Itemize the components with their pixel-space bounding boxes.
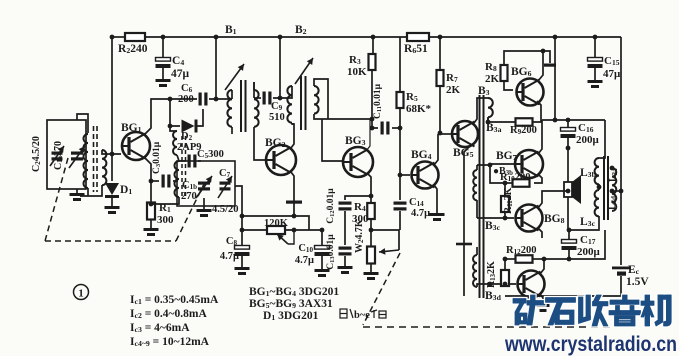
wire R10 left [490,165,513,183]
svg-text:C24.5/20: C24.5/20 [31,136,42,172]
wire R11 bottom [503,212,508,220]
wire BG6 collector [538,51,543,81]
resistor R2 [118,33,148,55]
node R7-BG5 [438,131,443,136]
wire battery bottom [505,276,621,296]
wire C13 to ground [344,256,346,266]
wire rail down to C16 [554,37,556,120]
transistor BG5 [451,121,478,159]
capacitor C14 [394,197,431,230]
svg-text:b~e: b~e [354,310,370,321]
wire BG5 collector to B3 [474,98,488,123]
wire BG5 emitter down [456,144,472,296]
svg-text:300: 300 [157,214,174,226]
wire C17 bottom [568,250,570,259]
oscillator tank box [177,161,235,206]
wire output top riser [599,120,605,158]
wire C16 top row [542,118,605,123]
IF transformer B1 primary [227,90,232,127]
output transformer secondary [612,168,616,211]
wire BG9 collector [540,259,544,274]
svg-text:10K: 10K [347,66,367,78]
wire B3 mid top to BG7 base [477,163,514,218]
svg-text:510: 510 [269,112,285,123]
resistor R5 [397,37,432,115]
wire bias row lower [242,229,322,231]
ground under R1 [144,228,159,236]
wire BG2 collector [291,124,294,148]
ground under D1 [105,206,120,214]
wire B2 primary bottom [292,123,294,124]
resistor R12 [506,245,536,263]
node BG1 emitter-C3 [149,179,154,184]
variable capacitor C1a [53,141,85,170]
text Ic3 line [130,322,190,334]
dashed AGC link [363,253,612,327]
wire osc coil feed [170,126,177,131]
node C9 right [278,96,283,101]
svg-text:200μ: 200μ [577,246,601,258]
resistor R4 [352,201,375,225]
wire C12 branch [345,196,371,200]
diode D1 [105,183,132,198]
ground under tuning gang [70,193,85,201]
wire BG3 emitter to R4 [370,196,372,203]
B3 winding bottom [473,255,477,287]
circled figure number 1 [74,285,89,300]
wire BG2 emitter to gnd [291,172,294,216]
B3 winding top [488,98,493,122]
svg-text:R112K: R112K [503,187,514,214]
svg-text:200μ: 200μ [576,134,600,146]
node rail-left [110,35,115,40]
resistor R1 [147,202,174,226]
capacitor C4 [156,37,190,80]
wire coil secondary top to BG1 base [102,150,121,154]
text Ic1 line [130,294,219,306]
speaker L3b [564,175,581,204]
svg-text:www.crystalradio.cn: www.crystalradio.cn [504,333,677,356]
wire bias row upper [242,216,309,230]
wire osc w1-w2 [177,155,179,161]
wire R5 bottom to column [399,108,401,198]
node bias right [320,228,325,233]
ground under C4 [156,79,171,87]
wire BG4 emitter [434,185,437,213]
potentiometer W2 [354,219,399,263]
node rail-C15 [593,35,598,40]
resistor R3 [347,37,376,78]
wire D1 to ground [111,197,113,206]
watermark hanzi kuang-shi-shou-yin-ji [513,295,671,326]
wire gang bottom to ground [76,189,78,193]
capacitor C9 [263,92,285,124]
wire BG8 emitter [534,228,542,241]
antenna coil secondary L1b [102,150,106,185]
wire R13 bottom [503,282,508,287]
potentiometer 120K [264,218,294,244]
text D1 type [263,310,319,322]
transistor BG3 [342,135,373,177]
wire BG4 collector [434,134,438,165]
ground BG4 emitter [430,213,445,221]
resistor R9 [510,118,537,136]
wire R8 top bend [504,51,543,65]
antenna coil primary L1a [84,134,89,188]
label B3c [485,220,501,232]
IF transformer B2 secondary [314,86,319,114]
node BG3 emitter [369,194,374,199]
svg-text:2K: 2K [485,73,500,85]
svg-text:68K*: 68K* [406,103,432,115]
label B3a [486,122,502,134]
capacitor C12 [326,188,352,224]
node rail-B2 [278,35,283,40]
wire C9 left [254,82,261,98]
transistor BG7 [496,150,543,178]
capacitor C16 [561,120,600,146]
resistor R8 [485,61,508,85]
B3 core [480,95,484,298]
svg-text:R12200: R12200 [506,245,536,256]
svg-text:R2240: R2240 [118,43,148,55]
capacitor C11 [372,83,400,134]
oscillator coil winding1 [173,131,177,155]
wire L3d bottom [567,216,599,232]
wire R12 right [533,258,542,260]
wire BG6 base [504,81,513,90]
output transformer winding L3a [595,158,599,184]
svg-text:C120.01μ: C120.01μ [326,188,336,224]
transistor BG9 [517,271,545,298]
node osc-emitter [149,202,154,207]
wire C12 to C13 [344,211,346,245]
wire B2 secondary to BG3 base [314,114,374,161]
wire R1 to ground [150,220,152,228]
ground under W2 [364,272,379,280]
svg-text:C1a270: C1a270 [53,141,64,170]
dashed oscillator outline [45,158,204,241]
node B1 feed [214,97,219,102]
wire R4 to W2 [369,219,399,250]
label B3b [493,166,513,177]
svg-text:4.7μ: 4.7μ [295,255,314,266]
capacitor C13 [326,234,352,270]
node R5-C11 [398,126,403,131]
svg-text:Ic2 = 0.4~0.8mA: Ic2 = 0.4~0.8mA [130,308,207,320]
wire BG4 base [400,174,410,176]
wire B1 secondary top [253,82,255,90]
wire B1 secondary to BG2 base [254,127,265,160]
B1 tuning arrow [225,64,244,90]
svg-text:C110.01μ: C110.01μ [373,83,383,119]
capacitor C10 [295,230,330,269]
watermark url [504,333,677,356]
ground under C15 [588,80,603,88]
variable capacitor C1b [181,176,212,202]
output transformer winding L3d [595,190,599,216]
wire right rail down to battery [620,37,622,265]
label B1 [225,24,237,36]
node rail-R7 [438,35,443,40]
wire B3 bottom to BG9 base [477,282,516,287]
label L3d [607,196,618,210]
svg-text:4.7μ: 4.7μ [220,251,239,262]
wire box right riser [235,186,242,230]
wire top supply rail [112,36,621,38]
capacitor C8 [220,230,250,267]
label L3c [580,216,596,228]
B2 core [301,76,306,130]
wire R7 down [439,86,441,133]
node osc top [168,124,173,129]
svg-text:C30.01μ: C30.01μ [152,141,162,174]
svg-text:270: 270 [181,191,197,202]
capacitor C17 [562,230,601,258]
osc coil core [182,136,186,196]
capacitor C5 [179,149,224,168]
wire C9 to B2 [273,86,292,98]
transistor BG2 [265,137,296,175]
wire BG1 emitter [145,158,151,203]
trimmer capacitor C2 [31,136,64,172]
IF transformer B2 primary [287,86,292,123]
node rail-B1 [214,35,219,40]
resistor R13 [486,257,509,288]
svg-text:C5300: C5300 [197,149,224,160]
wire C16 bottom [566,138,571,182]
svg-text:4.5/20: 4.5/20 [212,204,239,215]
wire coil primary bottom [87,188,89,196]
wire L3a-L3d gap [597,184,602,190]
node bias join [110,152,115,157]
trimmer capacitor C7 [218,168,232,198]
svg-text:C130.01μ: C130.01μ [326,234,336,270]
ground under C10 [315,269,330,277]
svg-text:1: 1 [78,288,84,300]
node rail-C4 [161,35,166,40]
svg-text:BG5~BG9 3AX31: BG5~BG9 3AX31 [249,298,333,310]
ground under C13 [338,266,353,274]
resistor R6 [404,33,429,55]
B2 tuning arrow [295,58,313,84]
node rail-R3 [371,35,376,40]
wire rail to C9 node [279,37,281,98]
svg-text:R9200: R9200 [510,125,537,136]
node R3-C11 [370,126,375,131]
text Ic4 line [130,336,210,348]
wire R9 left [488,121,516,123]
battery Ec [612,264,649,288]
ground BG2 emitter [286,201,302,204]
svg-text:200: 200 [178,94,194,105]
svg-text:4.7μ: 4.7μ [411,208,430,219]
node bias lower left [240,228,245,233]
svg-text:120K: 120K [264,218,289,229]
wire D2 cathode up [195,109,203,126]
oscillator coil winding2 [175,161,180,197]
wire rail to B1 node [215,37,217,99]
wire coil secondary bottom [80,185,102,196]
diode D2 [177,120,202,154]
wire bottom common row [542,230,605,261]
wire speaker bottom [567,197,569,230]
wire B1 primary bottom [231,127,233,134]
wire R3 down [371,70,373,119]
wire B2 secondary top [314,79,328,119]
transistor BG4 [411,149,439,189]
node rail-C16drop [553,35,558,40]
node bias upper left [240,214,245,219]
output transformer core [604,156,608,220]
text BG5-BG9 type [249,298,333,310]
text Ic2 line [130,308,207,320]
tuning gang box left [47,120,86,189]
wire BG1 collector [145,99,197,134]
wire BG5 base [438,133,451,135]
label B3d [485,290,502,302]
BG6 collector stub bar [541,49,556,67]
wire BG9 emitter [540,294,543,304]
wire osc w2 bottom to emitter [151,197,179,204]
wire left rail down [111,37,113,181]
ground BG9 emitter [537,304,550,312]
ground under C1b [197,198,212,217]
transistor BG1 [121,122,150,160]
label L3a [608,168,619,182]
wire gang top to coil [77,114,88,133]
node R5-BG4base [398,173,403,178]
capacitor C15 [588,37,622,80]
resistor R10 [500,172,530,187]
node D2 top [168,97,173,102]
wire B1 prim top [231,90,233,99]
wire B3 bottom top lead [476,247,478,255]
text de b-e jie [340,309,386,321]
B1 core [241,80,246,132]
ferrite rod core [94,126,98,192]
label B3 [478,85,490,97]
svg-text:2K: 2K [446,84,461,96]
wire BG8 collector [538,189,570,208]
svg-text:Ic1 = 0.35~0.45mA: Ic1 = 0.35~0.45mA [130,294,219,306]
wire BG3 emitter [367,173,371,196]
svg-text:R651: R651 [404,43,428,55]
wire BG2 emitter join [292,214,297,219]
wire B3a to R9 row [486,118,491,124]
wire BG6 emitter [533,101,541,122]
transistor BG6 [511,66,544,106]
wire BG3 collector riser [366,119,370,151]
B3 winding mid [473,165,477,200]
label B2 [295,24,307,36]
svg-text:47μ: 47μ [171,68,190,80]
svg-text:1.5V: 1.5V [626,276,649,288]
label L3b [580,167,597,179]
wire BG7 emitter [534,174,542,183]
wire secondary to right rail [610,166,624,194]
ground under C8 [235,267,250,275]
resistor R11 [501,181,514,214]
capacitor C3 [151,141,178,187]
node bias mid [292,228,297,233]
resistor R7 [437,37,461,96]
wire D2 branch [170,99,180,126]
svg-text:47μ: 47μ [603,68,621,80]
wire C6 to B1 [209,98,232,100]
IF transformer B1 secondary [254,90,259,127]
svg-text:W24.7K: W24.7K [354,219,365,253]
capacitor C6 [178,83,208,106]
label 4.5/20 [212,204,239,215]
svg-text:R132K: R132K [486,261,497,288]
wire BG7 collector [538,120,542,154]
wire W2 to ground [370,263,372,272]
wire B3 mid bottom to BG8 row [477,217,514,219]
transistor BG8 [515,205,565,232]
wire R12 left [505,258,516,260]
text BG1-BG4 type [249,286,339,298]
